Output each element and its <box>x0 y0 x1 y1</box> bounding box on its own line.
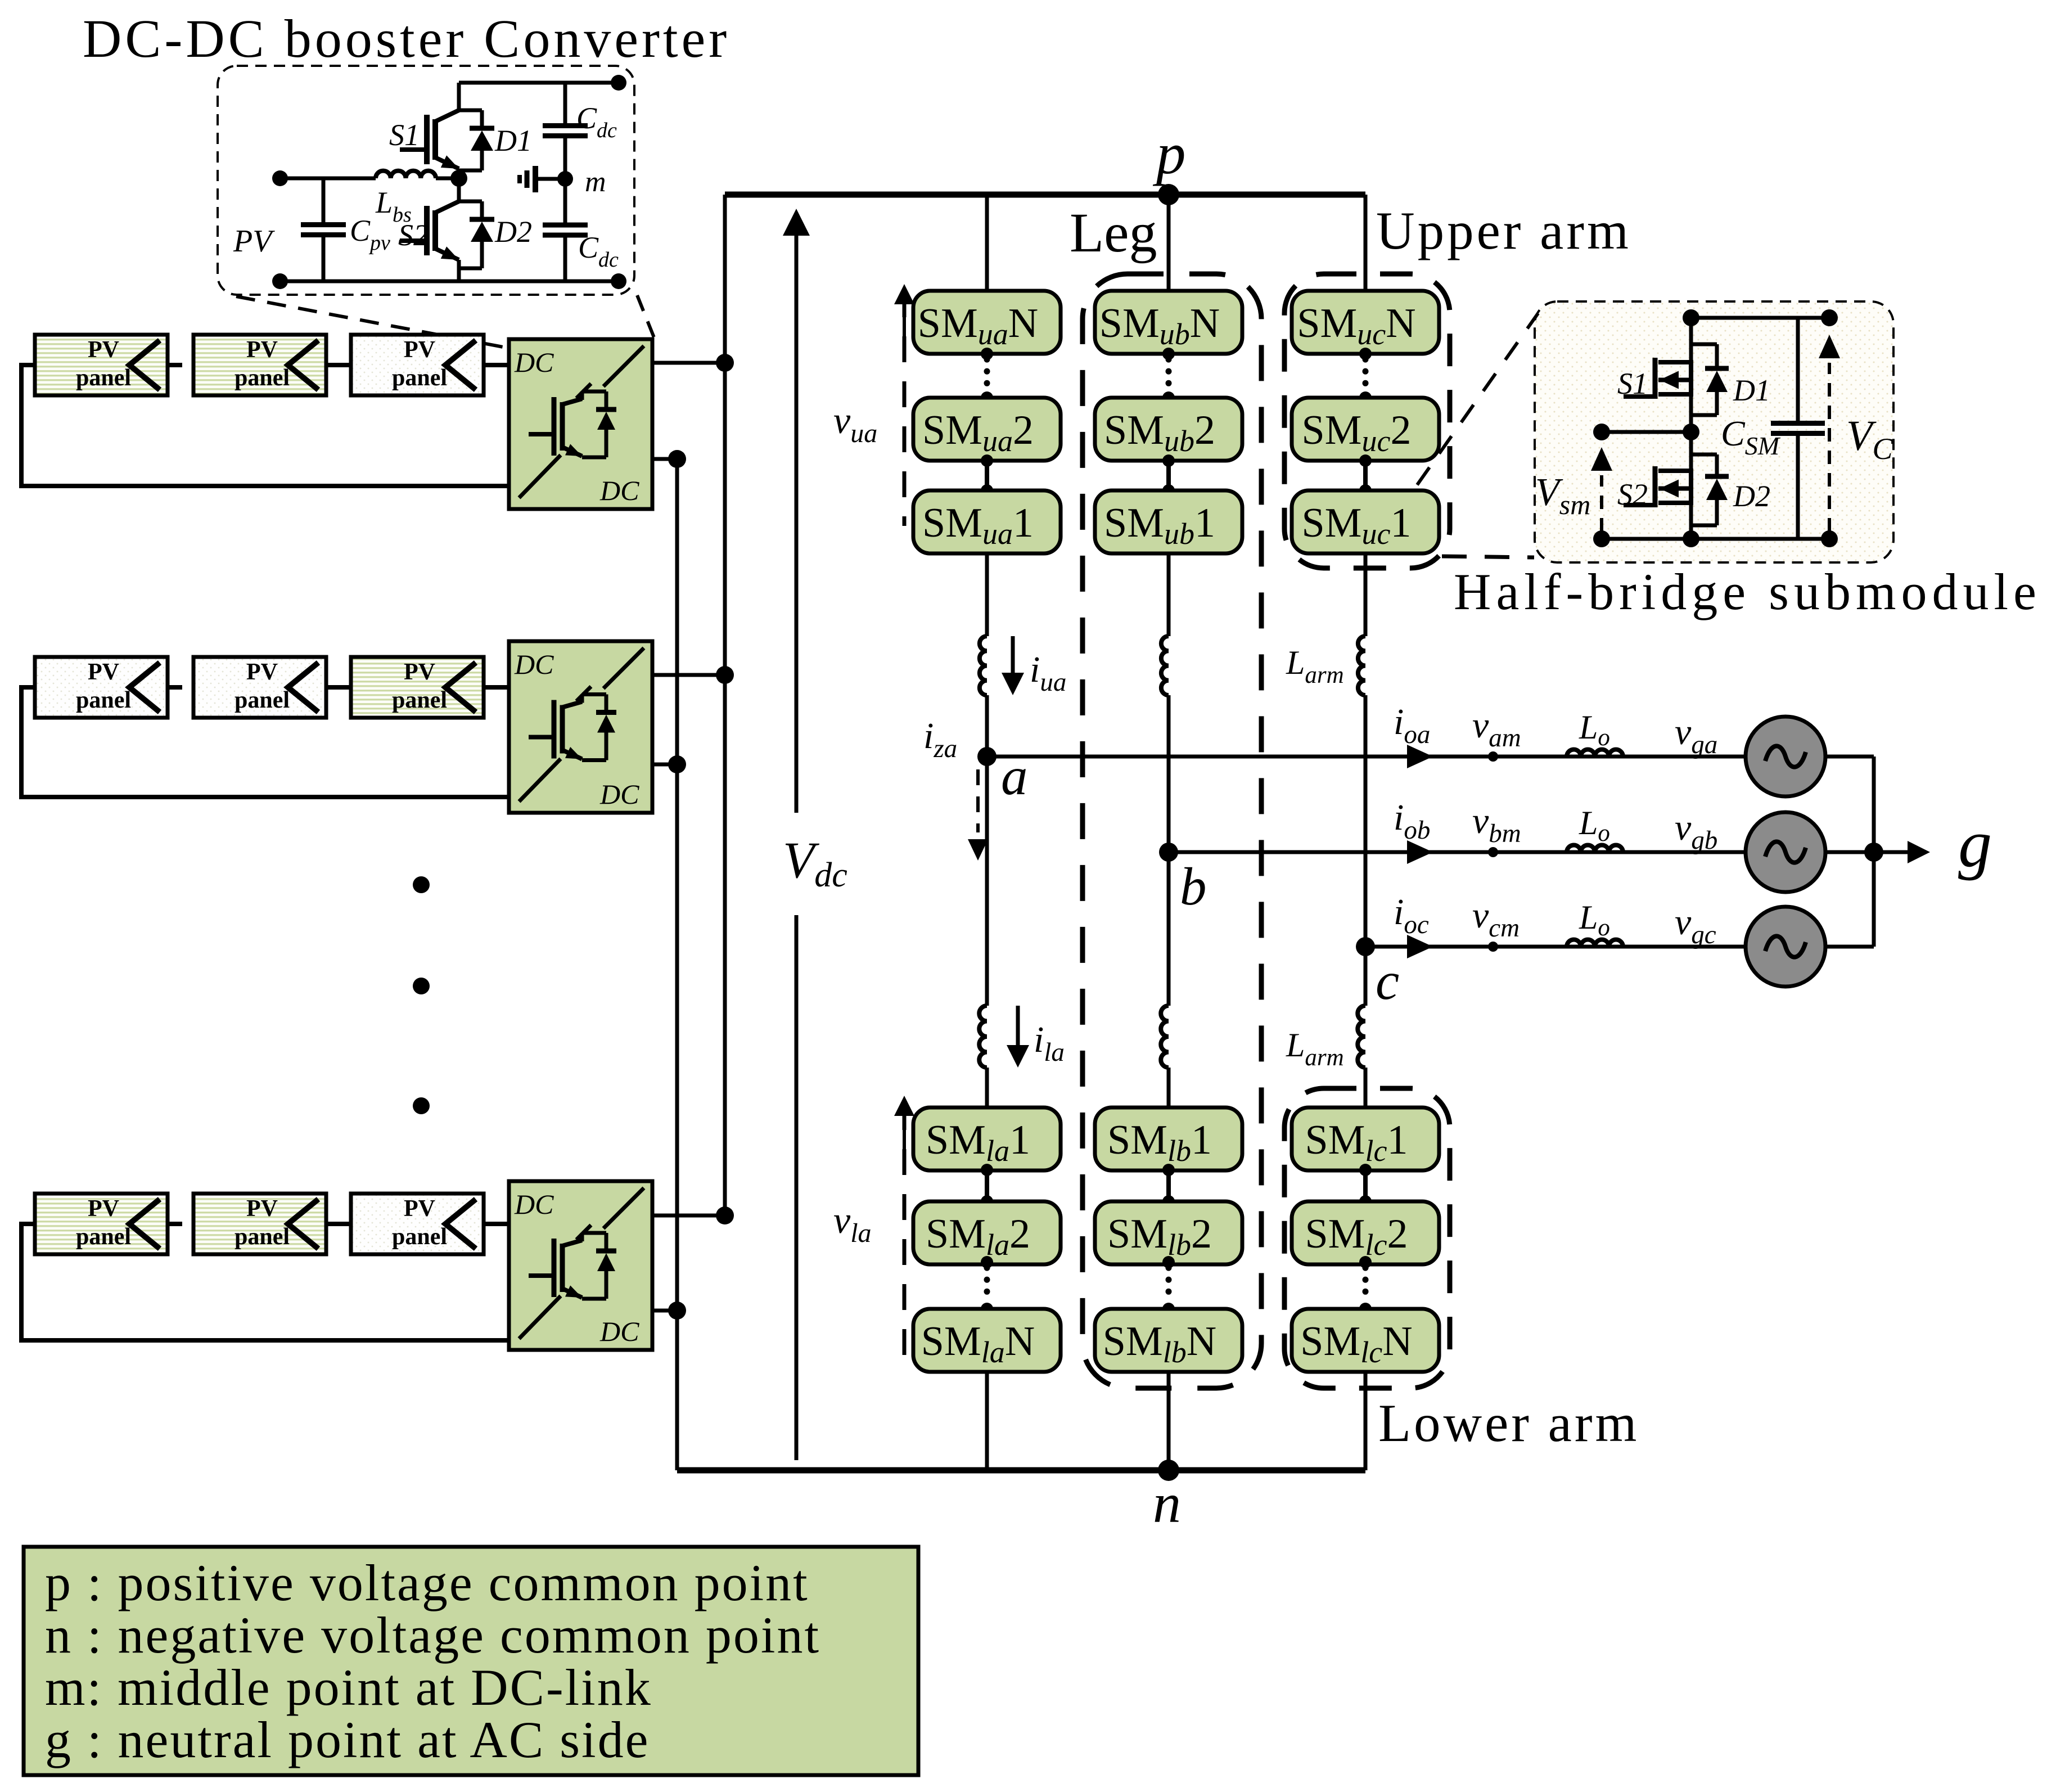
svg-text:SMua1: SMua1 <box>922 500 1034 551</box>
svg-text:panel: panel <box>235 1224 290 1250</box>
svg-text:DC: DC <box>514 649 554 680</box>
svg-text:PV: PV <box>88 337 119 363</box>
svg-text:Upper arm: Upper arm <box>1376 201 1631 260</box>
svg-text:DC: DC <box>599 475 639 506</box>
svg-text:p : positive voltage common po: p : positive voltage common point <box>45 1554 809 1611</box>
svg-text:panel: panel <box>76 1224 131 1250</box>
svg-text:SMuc2: SMuc2 <box>1302 407 1412 458</box>
svg-text:D2: D2 <box>1733 479 1770 513</box>
svg-text:Lower arm: Lower arm <box>1378 1393 1639 1453</box>
svg-text:D1: D1 <box>1733 373 1770 407</box>
svg-text:SMlaN: SMlaN <box>921 1318 1035 1369</box>
svg-text:PV: PV <box>246 337 278 363</box>
svg-text:m: middle point at DC-link: m: middle point at DC-link <box>45 1659 652 1716</box>
svg-text:D2: D2 <box>494 215 532 249</box>
svg-text:SMlc1: SMlc1 <box>1305 1117 1408 1168</box>
svg-text:DC-DC booster Converter: DC-DC booster Converter <box>83 8 730 69</box>
svg-text:D1: D1 <box>494 124 532 157</box>
svg-text:n: n <box>1153 1472 1181 1534</box>
svg-text:SMucN: SMucN <box>1297 300 1415 351</box>
svg-text:DC: DC <box>514 346 554 378</box>
svg-text:g : neutral point at AC side: g : neutral point at AC side <box>45 1711 650 1768</box>
svg-text:SMlbN: SMlbN <box>1103 1318 1216 1369</box>
svg-text:SMub1: SMub1 <box>1104 500 1215 551</box>
svg-text:Half-bridge submodule: Half-bridge submodule <box>1454 563 2041 620</box>
svg-text:panel: panel <box>392 365 447 391</box>
svg-text:m: m <box>585 166 606 198</box>
svg-text:DC: DC <box>599 1316 639 1347</box>
svg-text:panel: panel <box>392 1224 447 1250</box>
svg-text:p: p <box>1152 120 1186 186</box>
svg-text:DC: DC <box>599 778 639 810</box>
svg-text:SMla1: SMla1 <box>926 1117 1030 1168</box>
svg-text:SMub2: SMub2 <box>1104 407 1215 458</box>
svg-text:Leg: Leg <box>1070 201 1157 264</box>
svg-text:SMua2: SMua2 <box>922 407 1034 458</box>
svg-text:PV: PV <box>88 1196 119 1222</box>
svg-text:PV: PV <box>88 659 119 685</box>
svg-text:S2: S2 <box>398 218 429 252</box>
svg-text:PV: PV <box>404 337 435 363</box>
svg-text:SMlb1: SMlb1 <box>1107 1117 1212 1168</box>
svg-text:SMuc1: SMuc1 <box>1302 500 1412 551</box>
svg-text:c: c <box>1376 951 1399 1011</box>
svg-text:b: b <box>1180 857 1207 916</box>
svg-text:n : negative voltage common po: n : negative voltage common point <box>45 1606 820 1664</box>
svg-text:panel: panel <box>235 687 290 713</box>
svg-text:S2: S2 <box>1617 478 1648 511</box>
svg-text:panel: panel <box>76 687 131 713</box>
svg-text:DC: DC <box>514 1188 554 1220</box>
svg-text:panel: panel <box>235 365 290 391</box>
svg-text:g: g <box>1958 806 1992 881</box>
svg-text:PV: PV <box>233 224 275 259</box>
svg-text:SMlb2: SMlb2 <box>1107 1211 1212 1262</box>
svg-text:S1: S1 <box>1617 367 1648 400</box>
svg-text:panel: panel <box>392 687 447 713</box>
svg-text:SMlc2: SMlc2 <box>1305 1211 1408 1262</box>
svg-text:PV: PV <box>246 1196 278 1222</box>
svg-text:PV: PV <box>404 1196 435 1222</box>
svg-text:SMlcN: SMlcN <box>1300 1318 1412 1369</box>
svg-text:PV: PV <box>404 659 435 685</box>
svg-text:S1: S1 <box>389 118 420 152</box>
svg-text:panel: panel <box>76 365 131 391</box>
svg-text:PV: PV <box>246 659 278 685</box>
svg-text:SMla2: SMla2 <box>926 1211 1030 1262</box>
